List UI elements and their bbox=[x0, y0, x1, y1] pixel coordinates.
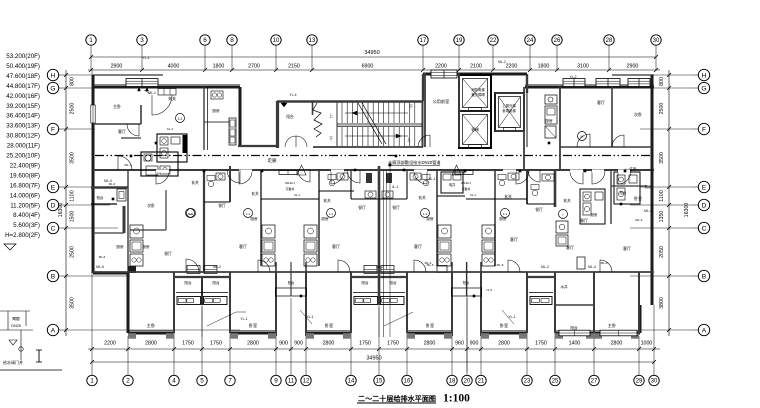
svg-text:24: 24 bbox=[527, 38, 534, 44]
svg-text:卧室: 卧室 bbox=[634, 195, 642, 201]
svg-text:30: 30 bbox=[653, 38, 660, 44]
svg-text:YL-1: YL-1 bbox=[240, 317, 247, 321]
svg-text:阳台: 阳台 bbox=[184, 280, 192, 285]
svg-text:ML-4: ML-4 bbox=[588, 265, 596, 269]
svg-text:3500: 3500 bbox=[659, 152, 665, 164]
svg-text:次卧: 次卧 bbox=[147, 203, 155, 208]
svg-text:阳台: 阳台 bbox=[389, 280, 397, 285]
svg-text:ML-4: ML-4 bbox=[644, 209, 652, 213]
svg-text:2200: 2200 bbox=[506, 64, 518, 70]
svg-text:沉餐井: 沉餐井 bbox=[286, 186, 295, 191]
svg-text:厨房: 厨房 bbox=[142, 244, 150, 249]
svg-text:H=2.800(2F): H=2.800(2F) bbox=[5, 232, 40, 239]
svg-text:2500: 2500 bbox=[659, 103, 665, 115]
svg-text:1000: 1000 bbox=[641, 341, 653, 347]
svg-text:1: 1 bbox=[89, 37, 93, 44]
svg-text:29: 29 bbox=[636, 379, 643, 385]
svg-text:4000: 4000 bbox=[168, 64, 180, 70]
svg-text:客厅: 客厅 bbox=[118, 128, 126, 134]
svg-text:16.800(7F): 16.800(7F) bbox=[10, 182, 40, 189]
svg-text:2500: 2500 bbox=[70, 246, 76, 258]
svg-text:水井: 水井 bbox=[560, 284, 568, 289]
svg-text:ML-5: ML-5 bbox=[497, 263, 504, 267]
svg-text:YL-1: YL-1 bbox=[142, 56, 149, 60]
svg-text:13: 13 bbox=[309, 38, 316, 44]
svg-text:阳台: 阳台 bbox=[463, 280, 469, 285]
svg-text:2800: 2800 bbox=[247, 341, 259, 347]
svg-text:客厅: 客厅 bbox=[239, 243, 247, 249]
svg-text:餐厅: 餐厅 bbox=[580, 217, 588, 223]
svg-text:DN25: DN25 bbox=[11, 324, 21, 328]
svg-text:H: H bbox=[702, 72, 707, 79]
svg-text:兼无障碍: 兼无障碍 bbox=[471, 92, 485, 97]
svg-text:36.400(14F): 36.400(14F) bbox=[6, 113, 40, 120]
svg-text:11: 11 bbox=[288, 379, 295, 385]
svg-text:走廊: 走廊 bbox=[268, 157, 277, 164]
svg-text:阳台: 阳台 bbox=[97, 195, 104, 200]
svg-text:参观电梯: 参观电梯 bbox=[502, 108, 516, 113]
svg-text:1500: 1500 bbox=[70, 211, 76, 223]
svg-text:9: 9 bbox=[274, 378, 278, 385]
svg-text:34950: 34950 bbox=[364, 50, 379, 56]
svg-text:960: 960 bbox=[455, 341, 464, 347]
svg-text:5: 5 bbox=[200, 378, 204, 385]
svg-text:次卧: 次卧 bbox=[634, 111, 642, 117]
svg-text:客厅: 客厅 bbox=[623, 245, 631, 251]
svg-text:A: A bbox=[51, 327, 56, 334]
svg-text:19.600(8F): 19.600(8F) bbox=[10, 172, 40, 179]
svg-text:XL-1: XL-1 bbox=[167, 127, 174, 131]
svg-text:3100: 3100 bbox=[577, 64, 589, 70]
svg-text:客厅: 客厅 bbox=[597, 99, 605, 105]
svg-text:D: D bbox=[702, 202, 707, 209]
svg-text:6: 6 bbox=[203, 37, 207, 44]
svg-text:餐厅: 餐厅 bbox=[392, 205, 400, 210]
svg-text:2700: 2700 bbox=[248, 64, 260, 70]
svg-text:客梯: 客梯 bbox=[471, 127, 479, 132]
svg-text:客厅: 客厅 bbox=[566, 244, 574, 250]
svg-text:YL-4: YL-4 bbox=[289, 93, 296, 97]
svg-text:上观光梯: 上观光梯 bbox=[502, 103, 516, 108]
svg-text:1750: 1750 bbox=[210, 341, 222, 347]
svg-text:27: 27 bbox=[591, 379, 598, 385]
svg-text:30: 30 bbox=[651, 379, 658, 385]
svg-text:2800: 2800 bbox=[145, 341, 157, 347]
svg-text:18: 18 bbox=[449, 379, 456, 385]
svg-text:1-1: 1-1 bbox=[503, 212, 508, 216]
svg-text:下: 下 bbox=[409, 104, 413, 109]
svg-text:28.000(11F): 28.000(11F) bbox=[7, 143, 40, 150]
svg-text:53.200(20F): 53.200(20F) bbox=[6, 53, 40, 60]
svg-text:阳台: 阳台 bbox=[620, 190, 627, 195]
svg-text:E: E bbox=[51, 184, 56, 191]
svg-text:ML-4: ML-4 bbox=[635, 218, 642, 222]
svg-text:25.200(10F): 25.200(10F) bbox=[6, 153, 40, 160]
svg-text:D: D bbox=[51, 202, 56, 209]
svg-text:閘閥: 閘閥 bbox=[12, 316, 20, 321]
svg-text:卧室: 卧室 bbox=[426, 322, 434, 329]
svg-text:H: H bbox=[51, 72, 56, 79]
svg-text:下: 下 bbox=[329, 136, 333, 141]
svg-text:ML-4: ML-4 bbox=[601, 261, 608, 265]
svg-text:8: 8 bbox=[230, 37, 234, 44]
svg-text:33.600(13F): 33.600(13F) bbox=[6, 123, 40, 130]
svg-text:阳台: 阳台 bbox=[286, 114, 294, 119]
svg-text:2800: 2800 bbox=[498, 341, 510, 347]
svg-text:主卧: 主卧 bbox=[113, 103, 121, 109]
svg-text:3FLW-1: 3FLW-1 bbox=[285, 181, 295, 185]
svg-text:阳台: 阳台 bbox=[288, 280, 294, 285]
svg-text:YL-5: YL-5 bbox=[486, 288, 493, 292]
svg-text:上: 上 bbox=[407, 136, 411, 142]
svg-text:客厅: 客厅 bbox=[332, 243, 340, 249]
svg-text:1750: 1750 bbox=[182, 341, 194, 347]
svg-text:ML-2: ML-2 bbox=[498, 60, 506, 64]
svg-text:39.200(15F): 39.200(15F) bbox=[6, 103, 40, 110]
svg-text:厨房: 厨房 bbox=[250, 216, 258, 221]
svg-text:10: 10 bbox=[273, 38, 280, 44]
svg-text:主卧: 主卧 bbox=[147, 322, 155, 329]
svg-text:28: 28 bbox=[606, 38, 613, 44]
svg-text:11.200(5F): 11.200(5F) bbox=[10, 202, 40, 209]
svg-text:42.000(16F): 42.000(16F) bbox=[6, 93, 40, 100]
svg-text:XL-1: XL-1 bbox=[470, 193, 476, 197]
svg-text:2900: 2900 bbox=[111, 64, 123, 70]
svg-text:阳台: 阳台 bbox=[212, 280, 220, 285]
svg-text:1-1: 1-1 bbox=[246, 212, 251, 216]
svg-text:F: F bbox=[702, 126, 706, 133]
svg-text:YL-1: YL-1 bbox=[508, 315, 515, 319]
svg-text:1400: 1400 bbox=[569, 341, 581, 347]
svg-text:主卧: 主卧 bbox=[608, 322, 616, 329]
svg-text:阳台: 阳台 bbox=[570, 325, 578, 330]
svg-text:2500: 2500 bbox=[70, 103, 76, 115]
svg-text:玄关: 玄关 bbox=[191, 180, 199, 185]
svg-text:1100: 1100 bbox=[659, 190, 665, 201]
svg-text:电井: 电井 bbox=[449, 182, 455, 187]
svg-text:4: 4 bbox=[172, 378, 176, 385]
svg-text:厨房: 厨房 bbox=[321, 216, 329, 221]
svg-text:厨房: 厨房 bbox=[545, 118, 553, 123]
svg-text:34950: 34950 bbox=[366, 356, 381, 362]
svg-text:3500: 3500 bbox=[70, 152, 76, 164]
svg-text:厨房: 厨房 bbox=[212, 108, 220, 113]
svg-text:1-1: 1-1 bbox=[423, 212, 428, 216]
svg-text:16: 16 bbox=[404, 379, 411, 385]
svg-text:6900: 6900 bbox=[362, 64, 374, 70]
svg-text:卧室: 卧室 bbox=[325, 322, 333, 329]
svg-text:ML-4: ML-4 bbox=[104, 179, 112, 183]
svg-text:ML-5: ML-5 bbox=[99, 255, 106, 259]
svg-text:2800: 2800 bbox=[323, 341, 335, 347]
svg-text:给水阀门井: 给水阀门井 bbox=[3, 359, 23, 365]
svg-text:玄关: 玄关 bbox=[563, 198, 571, 203]
svg-text:7: 7 bbox=[228, 378, 232, 385]
svg-text:900: 900 bbox=[294, 341, 303, 347]
svg-text:G: G bbox=[701, 85, 706, 92]
svg-text:900: 900 bbox=[470, 341, 479, 347]
svg-text:2050: 2050 bbox=[659, 246, 665, 258]
svg-text:主卧: 主卧 bbox=[629, 166, 637, 171]
svg-text:12: 12 bbox=[303, 379, 310, 385]
svg-text:1750: 1750 bbox=[387, 341, 399, 347]
svg-text:1-1: 1-1 bbox=[329, 212, 334, 216]
svg-text:玄关: 玄关 bbox=[504, 194, 512, 199]
svg-text:餐厅: 餐厅 bbox=[218, 203, 226, 208]
svg-text:XL-1: XL-1 bbox=[428, 177, 435, 181]
svg-text:消防电梯: 消防电梯 bbox=[471, 87, 485, 92]
svg-text:2800: 2800 bbox=[611, 341, 623, 347]
svg-text:1: 1 bbox=[90, 378, 94, 385]
svg-text:2150: 2150 bbox=[288, 64, 300, 70]
svg-text:22.400(9F): 22.400(9F) bbox=[10, 162, 40, 169]
svg-text:1350: 1350 bbox=[659, 211, 665, 223]
svg-text:玄关: 玄关 bbox=[418, 195, 426, 200]
svg-text:47.600(18F): 47.600(18F) bbox=[6, 73, 40, 80]
svg-text:1100: 1100 bbox=[70, 190, 76, 201]
svg-text:2800: 2800 bbox=[424, 341, 436, 347]
svg-text:ML-2: ML-2 bbox=[213, 265, 221, 269]
svg-text:B: B bbox=[51, 273, 56, 280]
svg-text:3800: 3800 bbox=[659, 297, 665, 309]
svg-text:8.400(4F): 8.400(4F) bbox=[13, 212, 40, 219]
svg-text:2200: 2200 bbox=[104, 341, 116, 347]
svg-text:30.800(12F): 30.800(12F) bbox=[6, 133, 40, 140]
svg-text:厨房: 厨房 bbox=[116, 244, 124, 249]
svg-text:44.800(17F): 44.800(17F) bbox=[6, 83, 40, 90]
svg-text:3: 3 bbox=[140, 37, 144, 44]
svg-text:900: 900 bbox=[279, 341, 288, 347]
svg-text:卧室: 卧室 bbox=[249, 322, 257, 329]
svg-text:餐厅: 餐厅 bbox=[358, 205, 366, 210]
svg-text:客厅: 客厅 bbox=[414, 243, 422, 249]
svg-text:1800: 1800 bbox=[538, 64, 550, 70]
svg-text:19: 19 bbox=[456, 38, 463, 44]
svg-text:22: 22 bbox=[490, 38, 497, 44]
svg-text:F: F bbox=[51, 126, 55, 133]
svg-text:餐厅: 餐厅 bbox=[164, 251, 172, 256]
svg-text:23: 23 bbox=[524, 379, 531, 385]
svg-text:20: 20 bbox=[464, 379, 471, 385]
svg-text:厨房: 厨房 bbox=[591, 212, 598, 217]
svg-text:25: 25 bbox=[552, 379, 559, 385]
svg-text:800: 800 bbox=[659, 77, 665, 86]
svg-text:C: C bbox=[702, 225, 707, 232]
svg-text:玄关: 玄关 bbox=[251, 191, 259, 196]
svg-text:17: 17 bbox=[420, 38, 427, 44]
svg-text:JL-1: JL-1 bbox=[392, 185, 399, 189]
svg-text:1800: 1800 bbox=[213, 64, 225, 70]
svg-text:G: G bbox=[50, 85, 55, 92]
svg-text:ML-5: ML-5 bbox=[427, 263, 434, 267]
svg-text:5.600(3F): 5.600(3F) bbox=[13, 222, 40, 229]
svg-text:公用前室: 公用前室 bbox=[433, 98, 450, 105]
svg-text:餐厅: 餐厅 bbox=[535, 207, 543, 212]
svg-text:YL-1: YL-1 bbox=[306, 315, 313, 319]
svg-text:卧室: 卧室 bbox=[500, 322, 508, 329]
svg-text:ML-2: ML-2 bbox=[541, 265, 549, 269]
svg-text:800: 800 bbox=[70, 77, 76, 86]
svg-text:14.000(6F): 14.000(6F) bbox=[10, 192, 40, 199]
svg-text:阳台: 阳台 bbox=[361, 280, 369, 285]
svg-text:1-2: 1-2 bbox=[188, 212, 193, 216]
svg-text:ML-5: ML-5 bbox=[96, 265, 104, 269]
svg-text:ML-1: ML-1 bbox=[148, 91, 156, 95]
svg-text:上: 上 bbox=[329, 112, 333, 118]
svg-text:二～二十层给排水平面图: 二～二十层给排水平面图 bbox=[358, 394, 436, 403]
svg-text:B: B bbox=[702, 273, 707, 280]
svg-text:XL-1: XL-1 bbox=[294, 193, 300, 197]
svg-text:2100: 2100 bbox=[470, 64, 482, 70]
svg-text:1750: 1750 bbox=[359, 341, 371, 347]
svg-text:1:100: 1:100 bbox=[443, 393, 470, 405]
svg-text:走廊顶部敷设给水DN20管道: 走廊顶部敷设给水DN20管道 bbox=[388, 159, 441, 166]
svg-text:16300: 16300 bbox=[58, 203, 64, 218]
svg-text:2: 2 bbox=[126, 378, 130, 385]
svg-text:2900: 2900 bbox=[627, 64, 639, 70]
svg-text:50.400(19F): 50.400(19F) bbox=[6, 63, 40, 70]
svg-text:玄关: 玄关 bbox=[323, 198, 331, 203]
svg-text:E: E bbox=[702, 184, 707, 191]
svg-text:1750: 1750 bbox=[535, 341, 547, 347]
svg-text:21: 21 bbox=[478, 379, 485, 385]
svg-text:客厅: 客厅 bbox=[510, 236, 518, 242]
svg-text:26: 26 bbox=[554, 38, 561, 44]
svg-text:I: I bbox=[563, 213, 564, 217]
svg-text:A: A bbox=[702, 327, 707, 334]
svg-text:C: C bbox=[51, 225, 56, 232]
svg-text:YL-2: YL-2 bbox=[569, 75, 576, 79]
svg-text:3500: 3500 bbox=[70, 297, 76, 309]
svg-text:2200: 2200 bbox=[435, 64, 447, 70]
svg-text:14: 14 bbox=[348, 379, 355, 385]
svg-text:1-2: 1-2 bbox=[178, 117, 183, 121]
svg-text:ML-2: ML-2 bbox=[376, 265, 384, 269]
svg-text:15: 15 bbox=[376, 379, 383, 385]
